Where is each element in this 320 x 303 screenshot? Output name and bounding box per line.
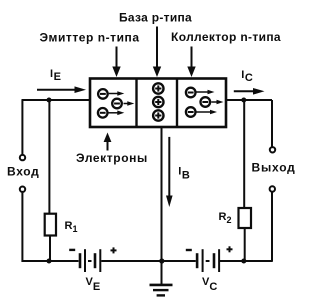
minus sign of VC — [186, 249, 192, 251]
ground symbol — [150, 285, 173, 296]
node: junction dot at base/rail crossing — [159, 258, 164, 263]
wire: R1 bottom to rail — [49, 236, 51, 262]
VE short plate 1 — [79, 253, 82, 268]
wire: bottom rail center to VC — [162, 260, 196, 262]
output terminal circle 1 — [270, 147, 275, 152]
resistor R2 — [239, 208, 252, 228]
VE short plate 2 — [94, 253, 97, 268]
arrow from Коллектор label to collector region — [187, 47, 195, 78]
VC short plate 1 — [196, 253, 199, 268]
electron C3 (collector) — [186, 107, 196, 117]
VC short plate 2 — [213, 253, 216, 268]
electron E1 (emitter) — [98, 89, 108, 99]
wire: R2 branch down — [243, 100, 245, 208]
arrow from electron E2 — [124, 101, 135, 106]
plus sign of VE — [111, 249, 117, 251]
VC long plate 1 — [202, 249, 204, 272]
battery VC — [186, 246, 233, 272]
arrow IB — [166, 137, 173, 207]
hole H1 (base) — [153, 83, 163, 93]
node: junction dot at R2 branch top — [241, 98, 246, 103]
arrow IE — [37, 86, 86, 93]
hole H3 (base) — [153, 110, 163, 120]
arrow from electron E3 — [109, 111, 125, 116]
arrow from Эмиттер label to emitter region — [112, 47, 120, 78]
electron C2 (collector) — [201, 97, 211, 107]
battery VE — [69, 247, 116, 272]
arrow from electron C1 — [197, 90, 215, 95]
electron C1 (collector) — [186, 88, 196, 98]
svg-text:Выход: Выход — [252, 161, 296, 175]
VC middle dash — [206, 260, 210, 262]
node: junction dot bottom left — [47, 259, 52, 264]
arrow from electron C2 — [211, 100, 223, 105]
VE long plate 2 — [99, 249, 101, 272]
node: junction dot at R1 branch top — [47, 98, 52, 103]
wire: collector lead (right horizontal) — [226, 99, 272, 101]
wire: base lead vertical down to ground — [161, 127, 163, 284]
arrow from electron C3 — [197, 110, 218, 115]
hole H2 (base) — [153, 97, 163, 107]
arrow from Электроны to emitter — [104, 133, 112, 151]
wire: R1 branch down — [48, 100, 50, 214]
VE long plate 1 — [84, 249, 86, 272]
input terminal circle 2 — [20, 187, 25, 192]
VC long plate 2 — [218, 249, 220, 272]
VE middle dash — [88, 260, 92, 262]
arrow from electron E1 — [109, 91, 125, 96]
svg-text:Вход: Вход — [7, 165, 39, 179]
svg-text:Коллектор n-типа: Коллектор n-типа — [171, 30, 281, 44]
wire: left vertical to input terminal 1 — [21, 100, 23, 154]
wire: emitter lead (left horizontal) — [22, 99, 90, 101]
divider emitter/base — [135, 79, 137, 128]
node: junction dot bottom right — [241, 259, 246, 264]
plus sign of VC — [227, 248, 233, 250]
electron E3 (emitter) — [98, 108, 108, 118]
input terminal circle 1 — [20, 155, 25, 160]
svg-text:База p-типа: База p-типа — [119, 11, 192, 25]
arrow from База label to base region — [153, 27, 161, 78]
wire: bottom rail VE to center junction — [101, 260, 162, 262]
output terminal circle 2 — [270, 186, 275, 191]
wire: R2 bottom to rail — [244, 228, 246, 261]
wire: right vertical from output terminal 2 to bottom rail — [271, 192, 273, 261]
svg-text:Электроны: Электроны — [76, 151, 148, 165]
wire: bottom rail VC to right corner — [220, 260, 272, 262]
resistor R1 — [45, 214, 56, 236]
electron E2 (emitter) — [112, 99, 122, 109]
transistor body outline — [90, 79, 226, 128]
divider base/collector — [176, 79, 178, 128]
svg-text:Эмиттер n-типа: Эмиттер n-типа — [39, 31, 139, 45]
minus sign of VE — [69, 249, 75, 251]
arrow IC — [234, 88, 265, 95]
wire: right vertical to output terminal 1 — [271, 100, 273, 147]
wire: left vertical from input terminal 2 to bottom rail — [22, 193, 78, 261]
